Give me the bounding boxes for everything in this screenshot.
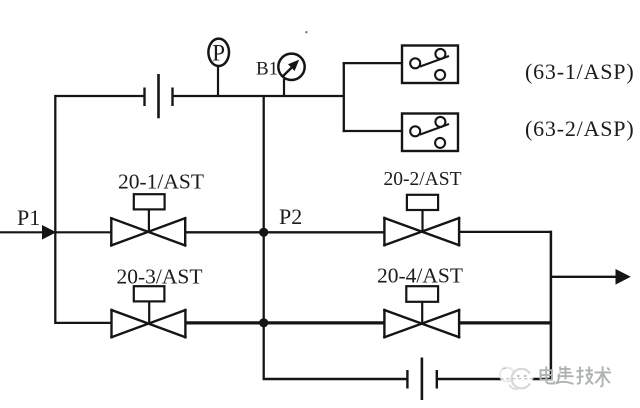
capacitor-style accumulator symbol top: right short plate — [171, 88, 173, 107]
wire middle row right of valve 20-2 — [459, 231, 552, 233]
wire outlet line — [551, 276, 617, 278]
valve 20-1/AST stem — [148, 208, 150, 232]
node P2 vertical wire — [263, 96, 265, 379]
wire bottom row thick right of valve 20-4 — [459, 321, 552, 324]
valve 20-4/AST actuator box — [406, 286, 438, 302]
pressure switch 63-1/ASP box — [402, 46, 458, 84]
wire bottom line right segment — [437, 378, 552, 380]
valve 20-3/AST stem — [148, 300, 150, 324]
svg-text:(63-1/ASP): (63-1/ASP) — [525, 59, 634, 84]
wire branch vertical to pressure switches — [343, 62, 345, 132]
wire to pressure switch 63-2 — [343, 130, 402, 132]
valve 20-1/AST actuator box — [134, 194, 165, 209]
capacitor-style accumulator symbol bottom: right short plate — [436, 370, 438, 389]
wire stem of gauge B1 — [283, 79, 285, 96]
capacitor-style accumulator symbol bottom: left short plate — [406, 370, 408, 389]
svg-text:20-4/AST: 20-4/AST — [377, 264, 463, 288]
valve 20-4/AST stem — [421, 301, 423, 324]
valve 20-2/AST stem — [421, 209, 423, 232]
svg-text:(63-2/ASP): (63-2/ASP) — [525, 116, 634, 141]
valve 20-3/AST bowtie — [112, 310, 186, 337]
wire bottom row thick between valve 20-3 and valve 20-4 — [185, 321, 384, 324]
capacitor-style accumulator symbol top: left short plate — [143, 88, 145, 107]
svg-text:20-1/AST: 20-1/AST — [118, 170, 204, 194]
outlet arrow — [616, 269, 631, 285]
watermark logo — [500, 368, 534, 390]
svg-text:20-3/AST: 20-3/AST — [117, 265, 203, 289]
valve 20-2/AST bowtie — [384, 218, 459, 245]
wire stem of pressure gauge P — [217, 66, 219, 96]
valve 20-2/AST actuator box — [407, 195, 438, 210]
valve 20-1/AST bowtie — [111, 218, 185, 245]
wire bottom line left segment — [263, 378, 408, 380]
valve 20-3/AST actuator box — [134, 286, 165, 301]
svg-text:P: P — [212, 40, 225, 65]
gauge B1 circle — [278, 54, 304, 80]
char jian (build) — [561, 368, 571, 370]
svg-text:P2: P2 — [279, 204, 302, 229]
wire middle row between valve1 and valve3 — [185, 231, 384, 233]
gauge B1 arrow needle — [283, 68, 292, 76]
svg-text:P1: P1 — [17, 205, 40, 230]
svg-text:20-2/AST: 20-2/AST — [384, 169, 462, 190]
wire top main line left segment — [55, 95, 145, 97]
wire top main line right segment — [173, 95, 344, 97]
pressure switch 63-2/ASP box — [402, 114, 458, 152]
capacitor-style accumulator symbol top: center tall plate — [157, 74, 160, 118]
pressure gauge P circle — [208, 39, 229, 66]
svg-text:B1: B1 — [256, 58, 278, 79]
junction node dot at P2 middle — [259, 228, 268, 237]
wire to pressure switch 63-1 — [343, 62, 402, 64]
valve 20-4/AST bowtie — [384, 310, 459, 337]
char dian (electric) — [541, 370, 553, 380]
char ji (technique) — [579, 367, 581, 382]
wire right vertical — [550, 231, 553, 380]
capacitor-style accumulator symbol bottom: center tall plate — [421, 358, 424, 401]
tiny speck artifact — [305, 31, 307, 33]
junction node dot at P2 bottom — [259, 318, 268, 327]
wire left vertical — [54, 95, 56, 323]
wire middle row from left edge — [0, 231, 111, 233]
char shu (art) — [595, 371, 612, 373]
wire bottom row left of valve 20-3 — [54, 322, 111, 324]
watermark text dian-jian-ji-shu (drawn strokes) — [541, 366, 612, 386]
P1 inlet arrow — [42, 225, 56, 240]
